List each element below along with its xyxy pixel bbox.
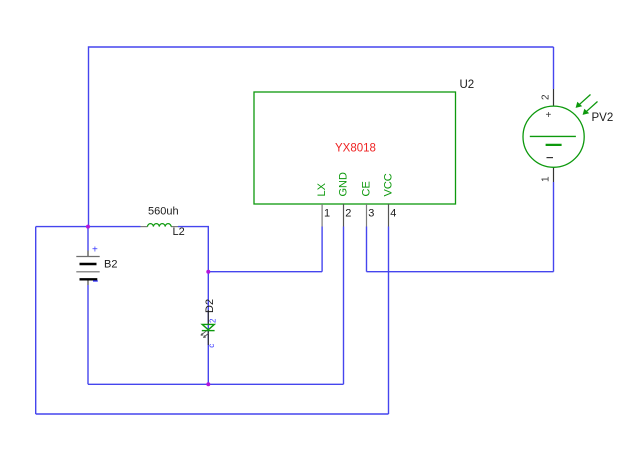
svg-text:+: +	[546, 110, 552, 121]
wire battery top vertical	[87, 227, 89, 251]
junction node at LX / D2	[206, 270, 210, 274]
wire pin4 VCC vertical	[388, 227, 390, 415]
junction node at D2 bottom / GND	[206, 382, 210, 386]
solar cell PV2 top stub	[553, 89, 555, 106]
battery B2 plate 4 (short thick)	[80, 278, 98, 280]
LED D2 lower stub	[207, 331, 209, 345]
battery B2 top stub	[87, 251, 89, 257]
wire PV2 top vertical	[553, 47, 555, 89]
LED D2 light arrow b	[203, 333, 209, 338]
LED D2 cathode bar	[202, 330, 215, 332]
svg-text:c: c	[207, 344, 216, 348]
battery B2 minus mark	[93, 280, 98, 282]
solar cell PV2 bottom stub	[553, 167, 555, 182]
PV2 inner positive plate (long)	[530, 135, 576, 137]
wire pin1 LX horizontal	[208, 271, 322, 273]
wire bottom inner y=384.3	[88, 383, 344, 385]
PV2 inner negative plate (short thick)	[546, 144, 562, 146]
wire LED branch vertical x=208.3	[207, 272, 209, 385]
U2 pin 4 stub	[388, 204, 390, 227]
battery B2 plate 1 (long thin)	[76, 256, 99, 258]
PV2 light arrow a	[578, 95, 591, 107]
svg-text:YX8018: YX8018	[335, 143, 376, 155]
svg-text:LX: LX	[316, 182, 328, 196]
wire between inductor and corner	[178, 227, 208, 272]
svg-text:VCC: VCC	[383, 173, 395, 196]
U2 pin 3 stub	[366, 204, 368, 227]
LED D2 light arrow a	[201, 331, 207, 336]
battery B2 plate 3 (long thin)	[76, 271, 99, 273]
svg-text:1: 1	[541, 176, 552, 182]
junction node at B2 top	[86, 225, 90, 229]
svg-text:3: 3	[368, 208, 374, 220]
svg-text:560uh: 560uh	[148, 206, 179, 218]
PV2 light arrow b	[585, 102, 598, 114]
U2 pin 2 stub	[343, 204, 345, 227]
wire pin3 CE vertical	[366, 227, 368, 272]
svg-text:2: 2	[541, 94, 552, 100]
PV2 internal minus mark	[547, 157, 554, 159]
svg-text:D2: D2	[204, 299, 216, 313]
svg-text:GND: GND	[338, 172, 350, 197]
battery B2 plate 2 (short thick)	[80, 263, 97, 265]
wire top net (B2+/L2 to PV2 pin2)	[89, 47, 554, 227]
wire pin3 CE to PV2 horizontal	[367, 271, 554, 273]
svg-text:B2: B2	[104, 259, 117, 271]
svg-text:2: 2	[209, 318, 218, 323]
svg-text:L2: L2	[173, 226, 185, 238]
wire bottom outer y=414	[36, 413, 389, 415]
svg-text:1: 1	[324, 208, 330, 220]
wire PV2 bottom vertical	[553, 182, 555, 272]
inductor L2 coil	[148, 224, 172, 227]
wire pin2 GND vertical	[343, 227, 345, 385]
wire left VCC loop horizontal y=226.6	[36, 226, 141, 228]
wire pin1 LX vertical	[321, 227, 323, 272]
inductor L2 left stub	[141, 226, 148, 228]
solar cell PV2 circle	[523, 106, 584, 167]
battery B2 bottom stub	[87, 279, 89, 285]
svg-text:+: +	[92, 245, 98, 256]
inductor L2 right stub	[171, 226, 178, 228]
wire left vertical x=35.7	[35, 227, 37, 414]
svg-text:U2: U2	[460, 79, 475, 91]
svg-text:2: 2	[345, 208, 351, 220]
LED D2 upper stub	[207, 310, 209, 324]
op-amp U2 body (YX8018 IC box)	[254, 92, 456, 204]
LED D2 triangle	[202, 324, 214, 329]
U2 pin 1 stub	[321, 204, 323, 227]
wire battery bottom vertical	[87, 285, 89, 384]
svg-text:CE: CE	[361, 181, 373, 196]
svg-text:4: 4	[390, 208, 396, 220]
svg-text:PV2: PV2	[592, 112, 614, 124]
